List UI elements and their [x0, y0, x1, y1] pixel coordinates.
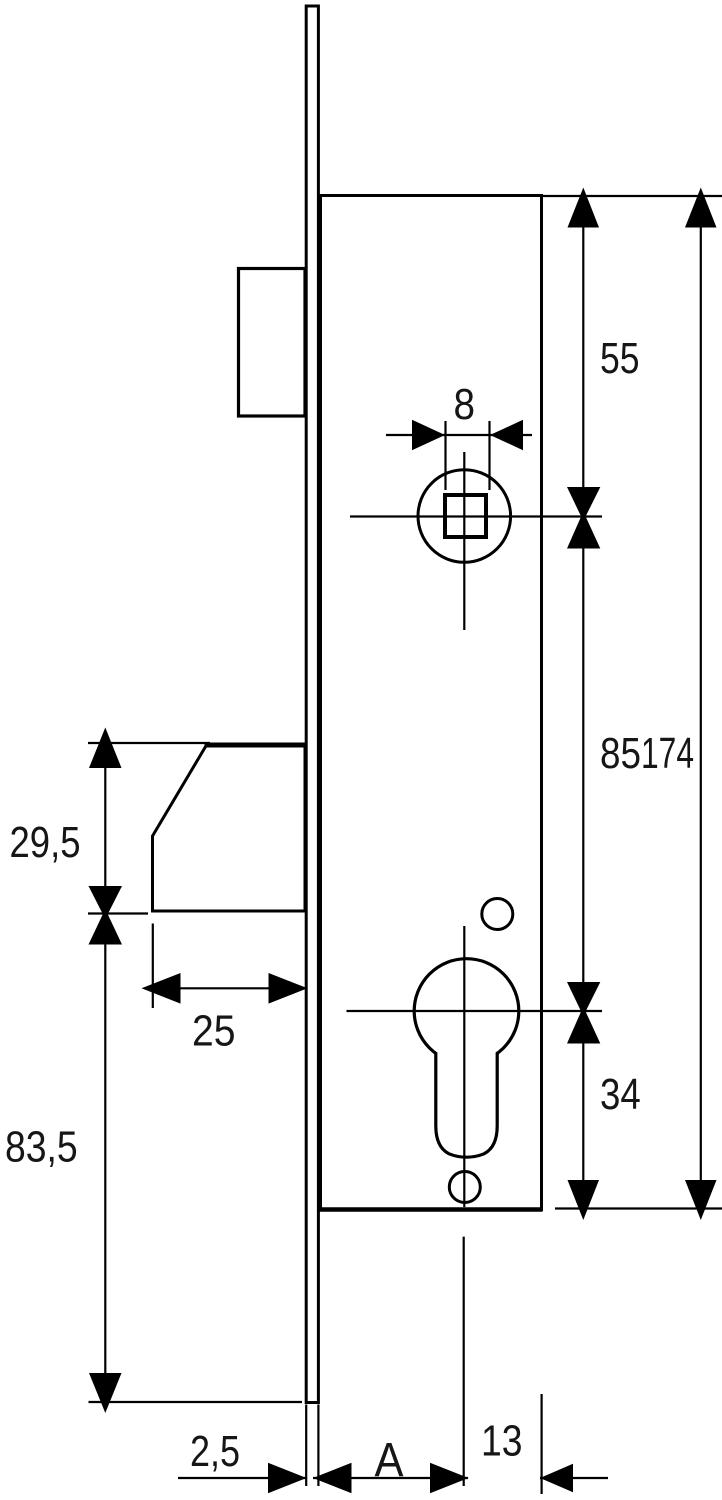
svg-text:83,5: 83,5	[5, 1123, 78, 1172]
svg-text:13: 13	[481, 1417, 523, 1466]
svg-text:85: 85	[600, 729, 641, 778]
svg-text:34: 34	[600, 1070, 641, 1119]
svg-text:2,5: 2,5	[190, 1427, 240, 1476]
svg-text:55: 55	[600, 334, 640, 383]
svg-text:25: 25	[192, 1007, 236, 1056]
svg-text:174: 174	[641, 729, 694, 778]
svg-text:29,5: 29,5	[10, 818, 81, 867]
svg-text:8: 8	[454, 380, 476, 429]
svg-text:A: A	[375, 1434, 404, 1487]
